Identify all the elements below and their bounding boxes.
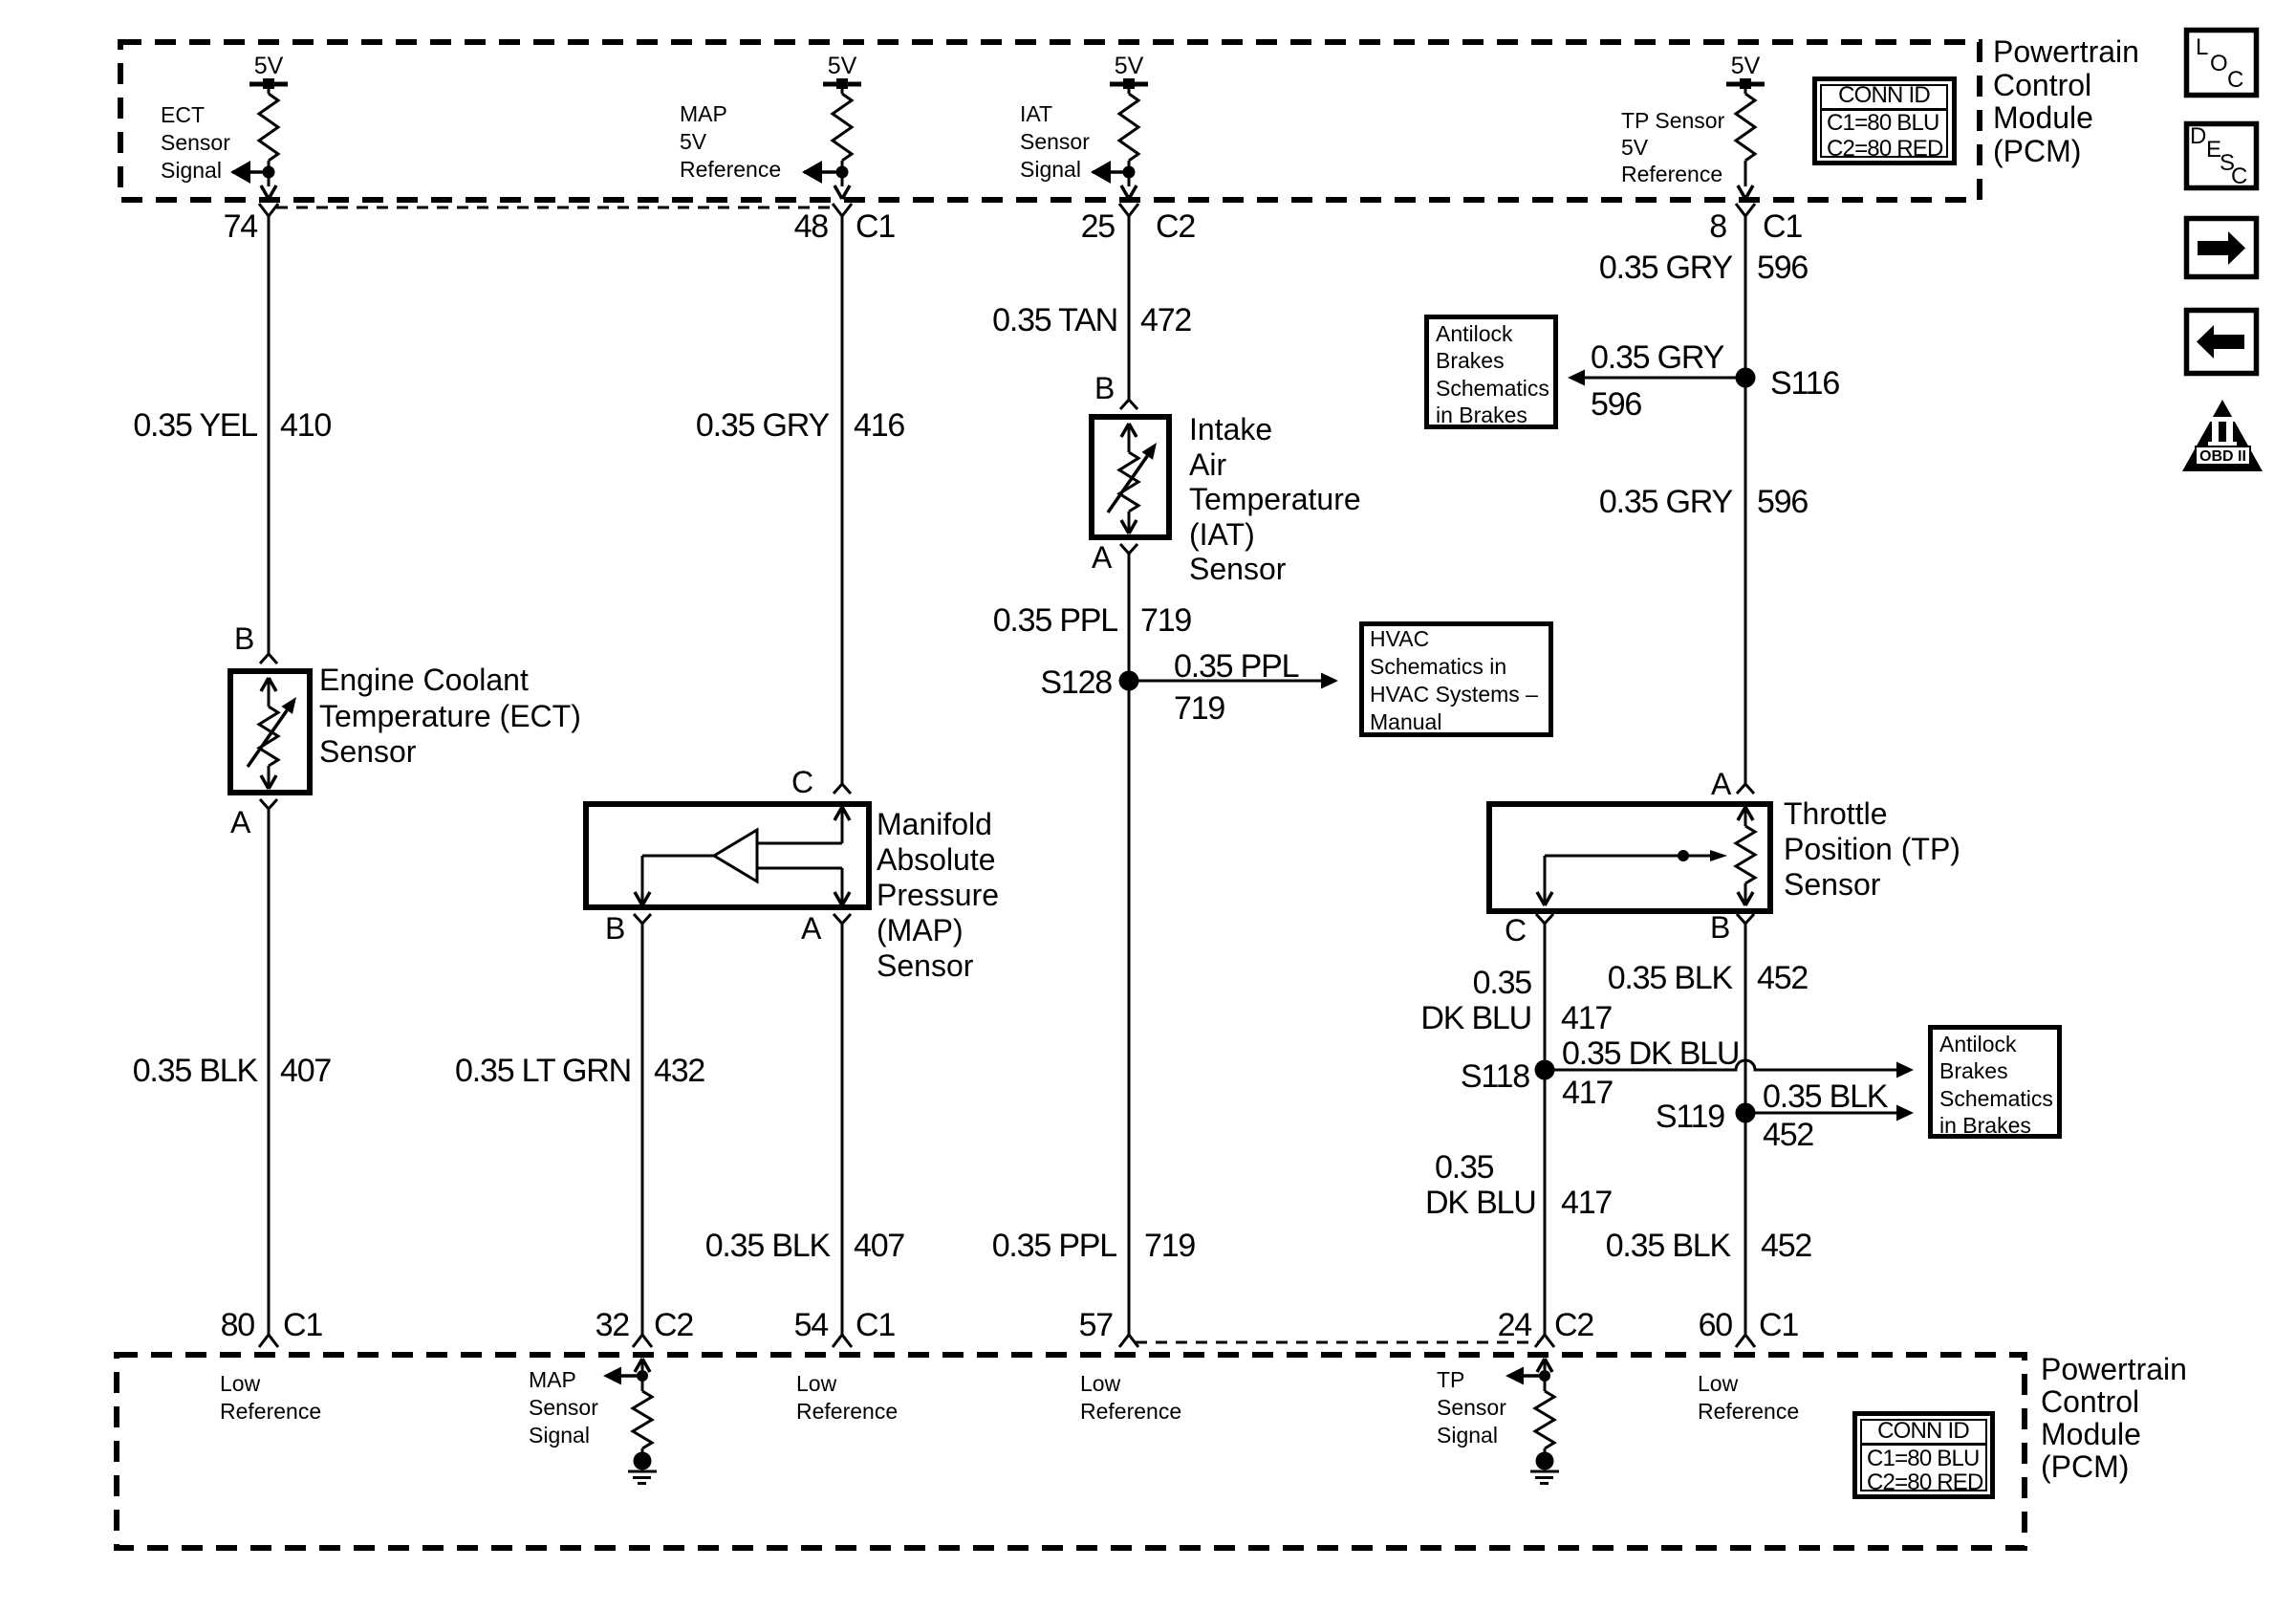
svg-text:48: 48 (794, 208, 829, 245)
svg-text:C1: C1 (1759, 1307, 1798, 1343)
svg-text:(PCM): (PCM) (2041, 1449, 2129, 1484)
svg-text:Throttle: Throttle (1784, 796, 1887, 831)
TP pull-up resistor (1736, 87, 1755, 161)
svg-text:Position (TP): Position (TP) (1784, 832, 1960, 866)
svg-text:0.35 DK BLU: 0.35 DK BLU (1562, 1035, 1739, 1072)
wire 407 (MAP low ref) (841, 924, 844, 1335)
svg-text:B: B (234, 621, 254, 656)
svg-text:C2: C2 (1156, 208, 1195, 245)
pin A connector (MAP) (834, 914, 851, 924)
wire to MAP ground (641, 1448, 644, 1455)
svg-text:S119: S119 (1656, 1099, 1724, 1135)
svg-text:C2: C2 (1554, 1307, 1593, 1343)
svg-text:CONN ID: CONN ID (1877, 1418, 1969, 1444)
svg-text:C: C (2231, 163, 2247, 189)
label 0.35 PPL 719 (lower) (992, 1228, 1196, 1264)
svg-text:Sensor: Sensor (1189, 552, 1287, 586)
IAT 5V supply (1110, 53, 1148, 89)
svg-text:C: C (1505, 913, 1527, 947)
svg-text:HVAC: HVAC (1370, 626, 1429, 651)
pin 48 connector (833, 204, 852, 216)
svg-text:Reference: Reference (680, 157, 781, 182)
svg-text:C1=80 BLU: C1=80 BLU (1827, 110, 1939, 136)
pin 24 label (1498, 1307, 1594, 1343)
svg-text:Signal: Signal (1020, 157, 1081, 182)
svg-text:Brakes: Brakes (1436, 348, 1505, 373)
S128 label (1040, 664, 1112, 701)
svg-text:0.35 GRY: 0.35 GRY (696, 407, 830, 444)
svg-text:472: 472 (1140, 302, 1191, 338)
pin 8 connector (1736, 204, 1755, 216)
svg-text:in Brakes: in Brakes (1436, 403, 1527, 427)
svg-text:Module: Module (2041, 1417, 2141, 1451)
svg-text:B: B (1094, 371, 1115, 405)
pin 74 label (224, 208, 258, 245)
pin B connector (ECT) (260, 654, 277, 664)
icon OBD II triangle (2182, 400, 2263, 471)
svg-text:719: 719 (1144, 1228, 1195, 1264)
pin 60 label (1699, 1307, 1799, 1343)
svg-text:Engine Coolant: Engine Coolant (319, 663, 529, 697)
Antilock Brakes reference box (top) (1427, 317, 1556, 427)
label MAP Sensor Signal (529, 1367, 598, 1448)
MAP internal A wire (757, 868, 850, 905)
wire 472 (IAT signal) (1128, 216, 1131, 400)
S118 label (1461, 1058, 1529, 1095)
svg-text:A: A (801, 911, 822, 946)
svg-text:0.35 GRY: 0.35 GRY (1599, 250, 1733, 286)
svg-text:Sensor: Sensor (161, 130, 230, 155)
svg-text:Schematics: Schematics (1939, 1086, 2053, 1111)
svg-text:C2=80 RED: C2=80 RED (1867, 1469, 1983, 1495)
svg-text:C2: C2 (654, 1307, 693, 1343)
node MAP signal junction (637, 1370, 648, 1382)
svg-text:(IAT): (IAT) (1189, 517, 1255, 552)
node MAP 5V ref junction (836, 166, 849, 179)
svg-text:B: B (605, 911, 625, 946)
svg-text:Control: Control (1993, 68, 2091, 102)
svg-text:0.35 PPL: 0.35 PPL (993, 602, 1118, 639)
svg-text:Module: Module (1993, 100, 2093, 135)
TP signal left arrow (1505, 1367, 1545, 1385)
label 0.35 GRY 416 (696, 407, 905, 444)
label Engine Coolant Temperature (ECT) Sensor (319, 663, 581, 769)
PCM label (top right) (1993, 34, 2139, 168)
pin 32 label (596, 1307, 694, 1343)
pin B label (ECT) (234, 621, 254, 656)
label 0.35 GRY 596 (upper) (1599, 250, 1809, 286)
icon DESC (2187, 123, 2257, 189)
pin 74 connector (259, 204, 278, 216)
svg-text:80: 80 (221, 1307, 255, 1343)
pin 60 connector (1736, 1335, 1755, 1347)
MAP internal C wire (757, 807, 850, 843)
svg-text:Control: Control (2041, 1384, 2139, 1419)
pin 57 label (1079, 1307, 1114, 1343)
svg-text:Schematics: Schematics (1436, 376, 1549, 401)
svg-text:Reference: Reference (1621, 162, 1722, 186)
node S119 splice (1736, 1103, 1756, 1123)
svg-text:Brakes: Brakes (1939, 1058, 2008, 1083)
label 0.35 GRY (S116 arrow) (1591, 339, 1724, 376)
wire 719 (IAT low ref upper) (1128, 554, 1131, 1335)
pin 25 label (1081, 208, 1196, 245)
svg-text:Sensor: Sensor (1437, 1395, 1506, 1420)
svg-text:TP Sensor: TP Sensor (1621, 108, 1725, 133)
svg-text:74: 74 (224, 208, 258, 245)
svg-text:Intake: Intake (1189, 412, 1272, 446)
label 596 (S116 arrow) (1591, 386, 1641, 423)
pin C connector (TP) (1536, 914, 1553, 924)
node S116 splice (1736, 368, 1756, 388)
pin B label (IAT) (1094, 371, 1115, 405)
svg-text:MAP: MAP (529, 1367, 576, 1392)
svg-text:A: A (1711, 767, 1732, 801)
svg-text:0.35 BLK: 0.35 BLK (1608, 960, 1734, 996)
label 0.35 PPL (S128 arrow) (1174, 648, 1299, 685)
PCM module box (bottom) (117, 1355, 2025, 1548)
svg-text:Air: Air (1189, 447, 1226, 482)
svg-text:5V: 5V (254, 53, 284, 79)
wire 407 (ECT low ref) (268, 809, 271, 1335)
label 0.35 TAN 472 (992, 302, 1191, 338)
svg-text:S116: S116 (1770, 365, 1839, 402)
label 0.35 DK BLU (S118 arrow) (1562, 1035, 1739, 1072)
svg-text:B: B (1710, 910, 1730, 945)
pin C label (MAP) (791, 765, 813, 799)
svg-text:A: A (230, 805, 251, 839)
svg-text:596: 596 (1757, 250, 1808, 286)
svg-text:0.35 PPL: 0.35 PPL (1174, 648, 1299, 685)
TP internal wiper arrow (1545, 850, 1727, 861)
label HVAC Schematics (1370, 626, 1538, 734)
label ECT Sensor Signal (161, 102, 230, 183)
wire ECT resistor to junction (268, 161, 271, 172)
svg-text:452: 452 (1763, 1117, 1813, 1153)
IAT sensor box (1092, 417, 1169, 537)
svg-text:432: 432 (654, 1053, 704, 1089)
label 0.35 LT GRN 432 (455, 1053, 704, 1089)
TP signal arrow into PCM (1537, 1359, 1552, 1376)
HVAC schematics reference box (1362, 624, 1551, 735)
pin 54 connector (833, 1335, 852, 1347)
pin A label (IAT) (1092, 540, 1113, 575)
svg-text:596: 596 (1591, 386, 1641, 423)
svg-text:C2=80 RED: C2=80 RED (1827, 136, 1943, 162)
svg-text:452: 452 (1761, 1228, 1811, 1264)
svg-text:0.35 BLK: 0.35 BLK (1763, 1078, 1889, 1115)
svg-text:54: 54 (794, 1307, 829, 1343)
svg-text:(MAP): (MAP) (877, 913, 964, 947)
svg-text:Sensor: Sensor (1020, 129, 1090, 154)
svg-text:0.35 BLK: 0.35 BLK (705, 1228, 832, 1264)
svg-text:MAP: MAP (680, 101, 727, 126)
node TP signal junction (1539, 1370, 1550, 1382)
pin 8 label (1709, 208, 1802, 245)
MAP pull-up resistor (833, 87, 852, 161)
pin 80 connector (259, 1335, 278, 1347)
label 417 (S118 arrow) (1562, 1075, 1613, 1111)
pin B connector (TP) (1737, 914, 1754, 924)
svg-text:24: 24 (1498, 1307, 1532, 1343)
IAT Sensor Signal arrow (1091, 161, 1129, 184)
svg-text:25: 25 (1081, 208, 1116, 245)
label 0.35 BLK 407 (133, 1053, 332, 1089)
S116 arrow to Antilock (1568, 370, 1745, 386)
svg-text:0.35: 0.35 (1473, 965, 1532, 1001)
wire MAP resistor to junction (841, 161, 844, 172)
svg-text:Signal: Signal (529, 1423, 590, 1448)
wire ECT junction to box edge + arrow (261, 172, 276, 199)
svg-text:Reference: Reference (1698, 1399, 1799, 1424)
pin A label (TP) (1711, 767, 1732, 801)
IAT pull-up resistor (1119, 87, 1138, 161)
S119 arrow to Antilock (1745, 1105, 1914, 1121)
CONN ID table (top) (1815, 79, 1955, 163)
pin A connector (TP) (1737, 784, 1754, 794)
svg-text:C: C (791, 765, 813, 799)
svg-text:TP: TP (1437, 1367, 1464, 1392)
svg-text:C1=80 BLU: C1=80 BLU (1867, 1446, 1980, 1471)
label Antilock Brakes Schematics (bottom) (1939, 1032, 2053, 1138)
TP internal resistor to ground (1535, 1376, 1554, 1448)
svg-text:OBD II: OBD II (2199, 448, 2246, 465)
pin A label (ECT) (230, 805, 251, 839)
svg-text:Manual: Manual (1370, 709, 1441, 734)
svg-text:417: 417 (1561, 1000, 1612, 1036)
svg-text:Signal: Signal (1437, 1423, 1498, 1448)
label Throttle Position (TP) Sensor (1784, 796, 1960, 902)
MAP internal B wire (635, 856, 714, 905)
svg-text:8: 8 (1709, 208, 1726, 245)
PCM label (bottom right) (2041, 1352, 2187, 1484)
S116 label (1770, 365, 1839, 402)
node S128 splice (1119, 671, 1139, 691)
bottom thin connector dash line (pins 57-24) (1136, 1341, 1538, 1344)
svg-text:416: 416 (854, 407, 904, 444)
label 0.35 BLK (S119 arrow) (1763, 1078, 1889, 1115)
svg-text:C: C (2227, 67, 2243, 93)
svg-text:0.35 YEL: 0.35 YEL (133, 407, 257, 444)
wire IAT junction to box edge + arrow (1121, 172, 1137, 199)
svg-text:S128: S128 (1040, 664, 1112, 701)
ground (MAP signal) (628, 1452, 657, 1484)
label Low Reference (pin 57) (1080, 1371, 1181, 1424)
pin B label (MAP) (605, 911, 625, 946)
pin 57 connector (1119, 1335, 1138, 1347)
svg-text:0.35 GRY: 0.35 GRY (1599, 484, 1733, 520)
label 0.35 BLK 407 (MAP) (705, 1228, 905, 1264)
label MAP 5V Reference (680, 101, 781, 182)
svg-text:Low: Low (1698, 1371, 1739, 1396)
node IAT signal junction (1123, 166, 1136, 179)
label 0.35 BLK 452 (upper) (1608, 960, 1809, 996)
ECT sensor box (230, 671, 310, 793)
icon left-arrow (2187, 311, 2257, 374)
wire MAP junction to box edge + arrow (834, 172, 850, 199)
S118 arrow to Antilock (hop over wire 452) (1545, 1060, 1914, 1078)
pin 24 connector (1535, 1335, 1554, 1347)
pin B connector (IAT) (1120, 400, 1137, 409)
wire to TP ground (1544, 1448, 1547, 1455)
pin B connector (MAP) (634, 914, 651, 924)
svg-text:0.35 GRY: 0.35 GRY (1591, 339, 1724, 376)
ECT thermistor (248, 678, 296, 789)
pin A connector (IAT) (1120, 544, 1137, 554)
svg-text:407: 407 (854, 1228, 904, 1264)
label Antilock Brakes Schematics (top) (1436, 321, 1549, 427)
label 719 (S128 arrow) (1174, 690, 1224, 727)
svg-text:Absolute: Absolute (877, 842, 996, 877)
top thin connector dash line (C1: pins 74-48) (276, 207, 834, 209)
svg-text:Antilock: Antilock (1939, 1032, 2017, 1056)
ground (TP signal) (1530, 1452, 1559, 1484)
svg-text:Sensor: Sensor (529, 1395, 598, 1420)
svg-text:719: 719 (1174, 690, 1224, 727)
svg-text:Schematics in: Schematics in (1370, 654, 1506, 679)
wire 432 (MAP signal) (641, 924, 644, 1335)
MAP signal arrow into PCM (635, 1359, 650, 1376)
svg-text:5V: 5V (1621, 135, 1649, 160)
label IAT Sensor Signal (1020, 101, 1090, 182)
pin C label (TP) (1505, 913, 1527, 947)
svg-text:0.35: 0.35 (1435, 1149, 1494, 1186)
svg-text:S118: S118 (1461, 1058, 1529, 1095)
svg-text:Temperature: Temperature (1189, 482, 1361, 516)
svg-text:A: A (1092, 540, 1113, 575)
TP internal C wire (1537, 856, 1552, 905)
svg-text:719: 719 (1140, 602, 1191, 639)
S128 arrow to HVAC (1129, 673, 1338, 689)
svg-text:IAT: IAT (1020, 101, 1052, 126)
svg-text:Temperature (ECT): Temperature (ECT) (319, 699, 581, 733)
svg-text:410: 410 (280, 407, 331, 444)
wire 417 (TP signal) (1544, 924, 1547, 1335)
svg-text:Sensor: Sensor (319, 734, 417, 769)
pin A label (MAP) (801, 911, 822, 946)
wire IAT resistor to junction (1128, 161, 1131, 172)
wire TP resistor to box edge + arrow (1738, 161, 1753, 199)
svg-text:32: 32 (596, 1307, 630, 1343)
S119 label (1656, 1099, 1724, 1135)
TP 5V supply (1726, 53, 1765, 89)
IAT thermistor (1108, 424, 1157, 533)
svg-text:D: D (2190, 123, 2206, 149)
node ECT signal junction (263, 166, 275, 179)
svg-text:DK BLU: DK BLU (1425, 1185, 1536, 1221)
svg-text:0.35 BLK: 0.35 BLK (133, 1053, 259, 1089)
svg-text:Antilock: Antilock (1436, 321, 1513, 346)
PCM module box (top) (120, 42, 1980, 200)
label 0.35 YEL 410 (133, 407, 331, 444)
node S118 splice (1535, 1060, 1555, 1080)
ECT pull-up resistor R(ECT) (259, 87, 278, 161)
label 452 (S119 arrow) (1763, 1117, 1813, 1153)
svg-text:L: L (2196, 34, 2208, 60)
svg-text:5V: 5V (1731, 53, 1761, 79)
svg-text:C1: C1 (283, 1307, 322, 1343)
wire 596 (TP 5V ref) (1744, 216, 1747, 784)
label 0.35 GRY 596 (lower) (1599, 484, 1809, 520)
svg-text:5V: 5V (828, 53, 857, 79)
label 0.35 PPL 719 (upper) (993, 602, 1192, 639)
svg-text:Pressure: Pressure (877, 878, 999, 912)
svg-text:407: 407 (280, 1053, 331, 1089)
svg-text:0.35 BLK: 0.35 BLK (1606, 1228, 1732, 1264)
icon LOC (2187, 31, 2257, 96)
svg-text:417: 417 (1561, 1185, 1612, 1221)
label 0.35 DK BLU 417 (upper stack) (1420, 965, 1612, 1036)
svg-text:Low: Low (220, 1371, 261, 1396)
MAP 5V Reference arrow (802, 161, 842, 184)
label TP Sensor 5V Reference (1621, 108, 1725, 186)
label TP Sensor Signal (1437, 1367, 1506, 1448)
wire 452 (TP low ref) (1744, 924, 1747, 1335)
svg-text:Sensor: Sensor (877, 948, 974, 983)
svg-text:O: O (2210, 51, 2228, 76)
pin 80 label (221, 1307, 323, 1343)
svg-text:ECT: ECT (161, 102, 205, 127)
svg-text:5V: 5V (1115, 53, 1144, 79)
svg-text:DK BLU: DK BLU (1420, 1000, 1531, 1036)
label Low Reference (pin 54) (796, 1371, 898, 1424)
MAP 5V supply (823, 53, 861, 89)
label 0.35 BLK 452 (lower) (1606, 1228, 1812, 1264)
svg-text:HVAC Systems –: HVAC Systems – (1370, 682, 1538, 707)
svg-text:Signal: Signal (161, 158, 222, 183)
pin 32 connector (633, 1335, 652, 1347)
pin A connector (ECT) (260, 799, 277, 809)
pin 54 label (794, 1307, 896, 1343)
CONN ID table (bottom) (1855, 1414, 1993, 1497)
svg-text:0.35 PPL: 0.35 PPL (992, 1228, 1117, 1264)
svg-text:596: 596 (1757, 484, 1808, 520)
MAP internal resistor to ground (633, 1376, 652, 1448)
svg-text:(PCM): (PCM) (1993, 134, 2081, 168)
label Low Reference (pin 60) (1698, 1371, 1799, 1424)
TP sensor box (1489, 804, 1770, 911)
ECT 5V supply (249, 53, 288, 89)
Antilock Brakes reference box (bottom) (1931, 1028, 2060, 1137)
svg-text:Low: Low (796, 1371, 837, 1396)
wire 410 (ECT signal) (268, 216, 271, 654)
label Manifold Absolute Pressure (MAP) Sensor (877, 807, 999, 983)
svg-text:5V: 5V (680, 129, 707, 154)
svg-text:0.35 TAN: 0.35 TAN (992, 302, 1117, 338)
pin C connector (MAP) (834, 784, 851, 794)
svg-text:in Brakes: in Brakes (1939, 1113, 2031, 1138)
wire 416 (MAP 5V ref) (841, 216, 844, 784)
svg-text:417: 417 (1562, 1075, 1613, 1111)
svg-text:Reference: Reference (1080, 1399, 1181, 1424)
label Low Reference (pin 80) (220, 1371, 321, 1424)
icon right-arrow (2187, 219, 2257, 277)
svg-text:C1: C1 (856, 208, 895, 245)
label Intake Air Temperature (IAT) Sensor (1189, 412, 1361, 586)
pin 25 connector (1119, 204, 1138, 216)
svg-text:CONN ID: CONN ID (1838, 82, 1930, 108)
svg-text:57: 57 (1079, 1307, 1114, 1343)
svg-text:Reference: Reference (220, 1399, 321, 1424)
MAP internal amplifier triangle (714, 830, 757, 882)
label 0.35 DK BLU 417 (lower stack) (1425, 1149, 1612, 1221)
ECT Sensor Signal arrow (230, 161, 269, 184)
MAP sensor box (586, 804, 869, 907)
MAP signal left arrow (603, 1367, 642, 1385)
svg-text:Powertrain: Powertrain (1993, 34, 2139, 69)
svg-text:0.35 LT GRN: 0.35 LT GRN (455, 1053, 631, 1089)
svg-text:Manifold: Manifold (877, 807, 992, 841)
